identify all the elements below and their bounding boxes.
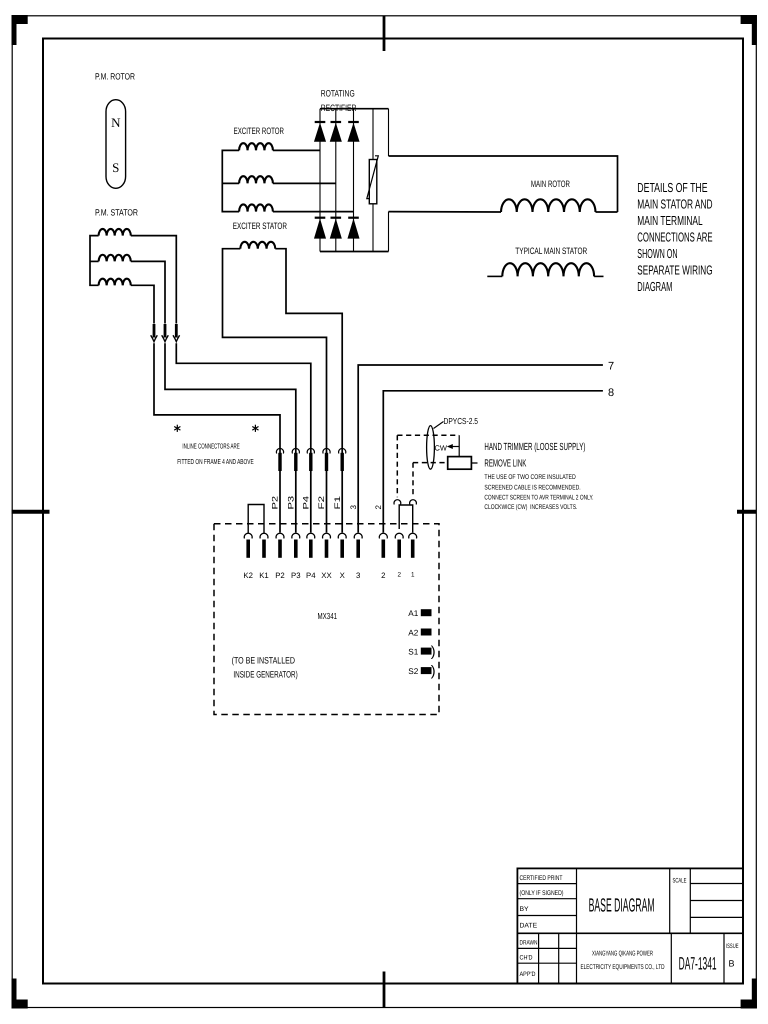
inline connector (arrow) on PM wire 2 — [164, 324, 167, 338]
inline connector (arrow) on PM wire 3 — [175, 324, 178, 338]
varistor top lead — [372, 109, 374, 160]
svg-text:P3: P3 — [291, 571, 301, 580]
svg-text:INSIDE GENERATOR): INSIDE GENERATOR) — [233, 670, 297, 680]
inline connector F1 — [339, 448, 346, 453]
svg-text:F2: F2 — [317, 495, 326, 509]
diode D2 — [331, 121, 342, 123]
socket arc on terminal 2 link — [394, 500, 401, 505]
svg-text:P.M. ROTOR: P.M. ROTOR — [95, 72, 135, 82]
DPYCS pointer line — [434, 422, 444, 429]
AVR terminal 1 (aux) — [409, 533, 417, 538]
svg-text:SHOWN ON: SHOWN ON — [637, 246, 677, 261]
varistor diagonal stroke — [367, 156, 379, 199]
svg-text:A2: A2 — [408, 629, 418, 638]
wire: phase 2 to rectifier leg 2 — [273, 182, 336, 184]
svg-text:A1: A1 — [408, 609, 418, 618]
svg-text:1: 1 — [411, 572, 415, 579]
diode D1 — [315, 121, 326, 123]
centring tick left — [12, 510, 50, 514]
asterisk right — [254, 425, 256, 432]
svg-text:TYPICAL MAIN STATOR: TYPICAL MAIN STATOR — [515, 246, 587, 256]
wire: PM wire to P2 — [154, 343, 280, 532]
svg-text:DRAWN: DRAWN — [520, 940, 538, 947]
wire: PM wire to P3 — [165, 343, 296, 532]
svg-text:7: 7 — [608, 361, 614, 373]
wire: phase 3 to rectifier leg 3 — [273, 211, 354, 213]
AVR terminal K2 — [244, 533, 252, 538]
wire: PM L2 to vertical x165 — [131, 261, 165, 323]
svg-text:CONNECTIONS ARE: CONNECTIONS ARE — [637, 230, 712, 245]
svg-text:THE USE OF TWO CORE INSULATED: THE USE OF TWO CORE INSULATED — [484, 474, 575, 481]
svg-text:): ) — [431, 664, 436, 680]
wire: PM L1 to vertical x176 — [131, 236, 177, 324]
svg-text:CONNECT SCREEN TO AVR TERMINAL: CONNECT SCREEN TO AVR TERMINAL 2 ONLY. — [484, 494, 593, 501]
stator winding right stub — [594, 275, 603, 277]
svg-text:BASE DIAGRAM: BASE DIAGRAM — [589, 896, 655, 917]
AVR terminal 2 — [379, 533, 387, 538]
diode D6 — [348, 217, 359, 219]
inline connector P3 — [292, 448, 299, 453]
svg-text:2: 2 — [374, 505, 383, 510]
varistor bottom lead — [372, 204, 374, 252]
P.M. rotor magnet N-S capsule — [106, 100, 126, 189]
svg-text:): ) — [431, 644, 436, 660]
svg-text:DIAGRAM: DIAGRAM — [637, 279, 672, 294]
svg-text:DPYCS-2.5: DPYCS-2.5 — [444, 416, 479, 426]
wire: PM L3 to vertical x154 — [131, 285, 154, 323]
AVR terminal 3 — [354, 533, 362, 538]
AVR terminal XX — [323, 533, 331, 538]
rectifier leg 2 — [335, 109, 337, 252]
centring tick top — [383, 16, 386, 51]
exciter rotor winding 1 — [239, 143, 273, 150]
rectifier right edge (-) — [388, 212, 390, 252]
svg-text:P2: P2 — [275, 571, 285, 580]
P.M. stator winding L3 — [99, 279, 131, 286]
typical main stator winding — [502, 263, 594, 276]
inline connector F2 — [323, 448, 330, 453]
centring tick bottom — [383, 972, 386, 1008]
rectifier leg 1 — [319, 109, 321, 252]
svg-text:F1: F1 — [333, 495, 342, 509]
trimmer dashed wire bottom — [413, 462, 448, 464]
centring tick right — [737, 510, 756, 514]
svg-text:SEPARATE WIRING: SEPARATE WIRING — [637, 262, 712, 277]
svg-text:ROTATING: ROTATING — [321, 89, 355, 99]
corner mark top-left — [12, 15, 28, 24]
AVR terminal P4 — [307, 533, 315, 538]
wire: main rotor right end — [596, 211, 618, 213]
svg-text:ELECTRICITY EQUIPMENTS CO., LT: ELECTRICITY EQUIPMENTS CO., LTD — [581, 964, 665, 971]
AVR terminal X — [338, 533, 346, 538]
svg-text:3: 3 — [356, 571, 360, 580]
svg-text:P.M. STATOR: P.M. STATOR — [95, 207, 138, 217]
svg-text:MAIN STATOR AND: MAIN STATOR AND — [637, 197, 712, 212]
svg-text:CW: CW — [435, 444, 448, 453]
title block outline — [517, 868, 743, 983]
AVR terminal P3 — [292, 533, 300, 538]
svg-text:K1: K1 — [259, 571, 269, 580]
rectifier leg 3 — [353, 109, 355, 252]
svg-text:XIANGYANG QIKANG POWER: XIANGYANG QIKANG POWER — [592, 951, 653, 958]
svg-text:DETAILS OF THE: DETAILS OF THE — [637, 180, 708, 195]
K2-K1 jumper — [248, 505, 264, 534]
AVR terminal K1 — [260, 533, 268, 538]
diode D3 — [348, 121, 359, 123]
svg-text:2: 2 — [381, 571, 385, 580]
svg-text:MAIN ROTOR: MAIN ROTOR — [531, 179, 570, 189]
svg-text:P3: P3 — [287, 495, 296, 509]
svg-text:8: 8 — [608, 387, 614, 399]
inline connector (arrow) on PM wire 1 — [153, 324, 156, 338]
svg-text:HAND TRIMMER (LOOSE SUPPLY): HAND TRIMMER (LOOSE SUPPLY) — [484, 442, 585, 453]
corner mark bottom-left — [12, 1000, 28, 1009]
svg-text:INLINE CONNECTORS ARE: INLINE CONNECTORS ARE — [182, 441, 239, 450]
svg-text:P4: P4 — [306, 571, 316, 580]
2-1 link (remove link) — [399, 505, 413, 533]
diode D5 — [331, 217, 342, 219]
svg-text:S: S — [112, 160, 119, 175]
corner mark top-right — [741, 15, 757, 24]
svg-text:P4: P4 — [302, 495, 311, 509]
svg-text:APP'D: APP'D — [520, 971, 536, 978]
trimmer dashed wire left drop — [396, 435, 398, 497]
svg-text:MX341: MX341 — [318, 611, 338, 621]
svg-text:CERTIFIED PRINT: CERTIFIED PRINT — [520, 875, 563, 882]
exciter rotor winding 3 — [239, 204, 273, 211]
trimmer dashed wire top — [397, 434, 459, 436]
svg-text:(TO BE INSTALLED: (TO BE INSTALLED — [232, 656, 296, 666]
svg-text:2: 2 — [397, 572, 401, 579]
svg-text:EXCITER ROTOR: EXCITER ROTOR — [234, 126, 285, 136]
svg-text:CH'D: CH'D — [520, 955, 533, 962]
P.M. stator winding L2 — [99, 255, 131, 262]
cable screen ellipse — [427, 426, 435, 470]
CW arrow — [452, 446, 459, 448]
rectifier bottom rail — [320, 251, 389, 253]
svg-text:FITTED ON FRAME 4 AND ABOVE: FITTED ON FRAME 4 AND ABOVE — [177, 457, 254, 466]
svg-text:XX: XX — [321, 571, 332, 580]
wire: P.M. stator left rail — [90, 236, 99, 286]
wire 8 to AVR terminal 2 — [383, 391, 603, 533]
svg-text:(ONLY IF SIGNED): (ONLY IF SIGNED) — [520, 890, 564, 897]
svg-text:REMOVE LINK: REMOVE LINK — [484, 459, 526, 470]
svg-text:N: N — [111, 115, 121, 130]
svg-text:EXCITER STATOR: EXCITER STATOR — [233, 221, 287, 231]
rectifier top rail — [320, 108, 389, 110]
inline connector P2 — [276, 448, 283, 453]
P.M. stator winding L1 — [99, 229, 131, 236]
trimmer potentiometer body — [448, 457, 472, 470]
AVR MX341 dashed box — [214, 524, 439, 715]
exciter rotor winding 2 — [239, 176, 273, 183]
wire: exciter rotor left rail — [222, 150, 239, 211]
wiper lead — [458, 435, 460, 456]
corner mark bottom-right — [741, 1000, 757, 1009]
svg-text:K2: K2 — [243, 571, 253, 580]
wire: exciter stator right end to F1 — [275, 249, 342, 533]
wire: phase 1 to rectifier leg 1 — [273, 149, 320, 151]
svg-text:B: B — [728, 959, 734, 969]
svg-text:3: 3 — [349, 505, 358, 510]
wire: DC+ output to main rotor — [389, 156, 618, 212]
AVR terminal 2 (aux) — [395, 533, 403, 538]
svg-text:X: X — [340, 571, 346, 580]
trimmer dashed wire right drop — [412, 463, 414, 498]
pot right stub — [471, 462, 477, 464]
diode D4 — [315, 217, 326, 219]
svg-text:DATE: DATE — [520, 923, 538, 930]
wire: PM wire to P4 — [176, 343, 310, 532]
wire 7 to AVR terminal 3 — [358, 365, 603, 533]
inline connector P4 — [307, 448, 314, 453]
svg-text:S1: S1 — [408, 648, 418, 657]
socket arc on terminal 1 link — [410, 500, 417, 505]
svg-text:CLOCKWICE (CW) INCREASES VOLT: CLOCKWICE (CW) INCREASES VOLTS. — [484, 504, 577, 511]
svg-text:SCALE: SCALE — [673, 878, 687, 885]
varistor RV1 body — [369, 160, 377, 204]
svg-text:SCREENED CABLE IS RECOMMENDED.: SCREENED CABLE IS RECOMMENDED. — [484, 484, 580, 491]
wire: exciter stator left end to F2 — [223, 249, 327, 533]
main rotor winding — [501, 199, 596, 212]
svg-text:ISSUE: ISSUE — [726, 943, 739, 950]
wire: DC- output to main rotor — [389, 211, 502, 213]
AVR terminal P2 — [276, 533, 284, 538]
svg-text:MAIN TERMINAL: MAIN TERMINAL — [637, 213, 702, 228]
svg-text:S2: S2 — [408, 667, 418, 676]
stator winding left stub — [487, 275, 502, 277]
svg-text:DA7-1341: DA7-1341 — [679, 954, 717, 974]
rectifier right edge (+) — [388, 109, 390, 156]
title block grid — [517, 932, 743, 934]
svg-text:P2: P2 — [271, 495, 280, 509]
exciter stator winding — [240, 242, 275, 249]
svg-text:BY: BY — [520, 906, 530, 913]
asterisk left — [176, 425, 178, 432]
